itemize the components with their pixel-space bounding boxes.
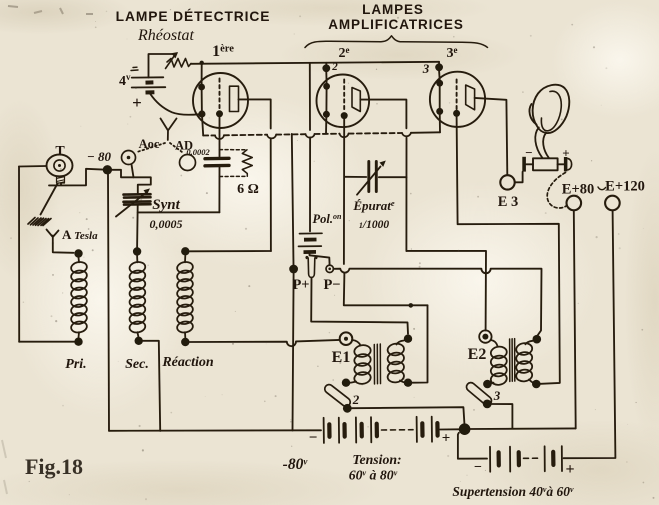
triode U2 envelope [317, 75, 370, 128]
svg-text:+: + [562, 146, 569, 161]
switch S2 plug lever [323, 383, 352, 408]
wire left vertical aerial circuit [18, 167, 20, 342]
battery B1 plates [132, 77, 166, 87]
svg-text:3: 3 [422, 61, 430, 76]
grid U2 dashed electrode [343, 80, 345, 112]
wire bottom to primary coil [19, 341, 74, 343]
svg-text:2: 2 [331, 61, 338, 73]
wire U1 plate lead [239, 99, 271, 128]
wire U1 plate down to reaction coil [270, 140, 272, 252]
transformer T1 secondary coil [387, 341, 406, 384]
svg-text:3: 3 [493, 388, 501, 403]
wire U2 plate to E2 top left [406, 251, 486, 331]
jack T telephone terminal [47, 155, 73, 177]
node reaction top [181, 247, 189, 255]
switch S3 plug lever [465, 381, 494, 407]
wire bus down to tube1 filament [201, 64, 203, 85]
hop heater bus over U1 plate wire [267, 135, 276, 139]
earth hatch block [28, 218, 51, 226]
wire T1 secondary bottom to grid bus [412, 305, 427, 382]
node top of tube1 filament [200, 61, 204, 65]
wire antenna to primary top [53, 243, 74, 253]
capacitor C3 epurateur plates [369, 162, 377, 192]
wire node2 to bus [325, 63, 327, 65]
node T2 secondary bottom [532, 380, 541, 389]
node T2 secondary top [533, 335, 542, 344]
pin U2 filament bottom [323, 111, 330, 118]
wire U2 filament to heater bus [325, 114, 327, 134]
node primary bottom [74, 338, 82, 346]
wire E plus 80 down [574, 210, 576, 428]
horn bell outer [533, 85, 570, 133]
wire B2 bottom to P minus [310, 253, 330, 265]
svg-text:AD: AD [175, 139, 193, 153]
wire reaction bottom to E1 with hop [190, 340, 340, 346]
svg-text:E+80: E+80 [562, 182, 594, 198]
node secondary top [133, 247, 141, 255]
svg-text:AMPLIFICATRICES: AMPLIFICATRICES [328, 17, 464, 32]
svg-text:P+: P+ [292, 277, 309, 293]
svg-text:1/1000: 1/1000 [359, 219, 389, 231]
svg-text:+: + [565, 461, 574, 478]
wire N2 right to E plus80 line [470, 427, 575, 430]
hop heater bus over U2 plate wire [402, 133, 411, 136]
wire Acc contact down [132, 165, 134, 178]
pin U1 grid [216, 110, 223, 117]
wire supertension to E plus120 [564, 211, 616, 458]
wire dashed supertension middle [524, 457, 542, 459]
svg-text:0,0005: 0,0005 [150, 217, 183, 231]
svg-text:Fig.18: Fig.18 [25, 454, 83, 479]
wire Pol supply down [309, 63, 311, 231]
wire P minus to E2 primary with hops [333, 269, 541, 336]
node secondary bottom [135, 337, 143, 345]
wire dotted S1 to Acc contact [137, 143, 165, 152]
rheostat R1 zigzag [167, 59, 191, 68]
terminal E plus 120 ring [605, 196, 620, 211]
node S3 contact [483, 400, 492, 409]
node T1 primary bottom [342, 379, 350, 387]
svg-text:LAMPE DÉTECTRICE: LAMPE DÉTECTRICE [116, 8, 271, 24]
wire dotted S1 to AD contact [170, 143, 184, 154]
node N2 battery junction [459, 423, 471, 435]
capacitor C3 arrow [357, 167, 381, 195]
svg-text:P−: P− [323, 277, 340, 293]
svg-text:−: − [309, 430, 318, 446]
transformer T1 core [374, 344, 380, 384]
wire U3 filament to heater bus [439, 111, 441, 132]
pin U2 filament top [323, 83, 330, 90]
wire battery plus to junction [440, 428, 459, 430]
svg-text:LAMPES: LAMPES [362, 2, 424, 17]
battery BT2 supertension cells [490, 446, 562, 472]
wire jack T left to down bus [19, 165, 47, 168]
wire plug stem to E1 [311, 278, 408, 334]
inductor L3 reaction coil [176, 256, 193, 338]
pin U1 filament bottom [198, 110, 205, 117]
svg-text:Réaction: Réaction [161, 355, 214, 370]
node N1 junction [103, 165, 112, 174]
svg-text:Supertension 40và 60v: Supertension 40và 60v [452, 484, 574, 499]
svg-text:Sec.: Sec. [125, 357, 149, 372]
inductor L1 primary coil [70, 258, 87, 338]
node stain on bus [409, 303, 414, 308]
triode U1 envelope [193, 73, 248, 128]
terminal E1 ring [340, 332, 353, 345]
wire epurateur left [345, 176, 366, 178]
node T1 secondary bottom [404, 379, 412, 387]
wire secondary bottom to B minus bus [143, 341, 160, 431]
plate U1 anode [230, 86, 239, 111]
terminal E2 bullseye [479, 330, 491, 342]
hop heater bus over grid U2 wire [340, 134, 349, 138]
wire U3 plate lead to E3 [475, 98, 508, 175]
transformer T1 primary coil [350, 340, 372, 385]
horn neck [535, 128, 542, 158]
contact Acc circle [122, 151, 136, 165]
wire cap C2 to grid return [218, 168, 220, 213]
pin U2 grid [341, 112, 348, 119]
battery BT1 tension cells [324, 417, 432, 443]
wire N1 down left frame [108, 174, 109, 431]
svg-text:Épurate: Épurate [352, 198, 395, 213]
wire grid U3 to E2 secondary [457, 117, 560, 384]
transformer T2 secondary coil [515, 341, 533, 383]
wire filament plus bus (top) [191, 62, 439, 64]
wire C1 down to secondary coil [136, 206, 139, 248]
horn bell mouth inner [541, 91, 561, 131]
wire U3 filament column [438, 71, 441, 80]
node S2 contact [343, 404, 352, 413]
grid U1 dashed electrode [219, 79, 221, 111]
wire U1 filament down to heater bus [202, 114, 203, 136]
svg-text:−: − [525, 145, 532, 160]
wire S3 to supertension junction [492, 404, 513, 428]
wire E3 to speaker motor [515, 172, 523, 183]
svg-text:Aoc: Aoc [139, 137, 160, 151]
wire U1 filament internal [201, 87, 203, 114]
contact AD circle [180, 155, 196, 171]
transformer T2 core [510, 339, 515, 382]
speaker motor knob [568, 159, 572, 170]
speaker motor box [533, 158, 558, 170]
node T2 primary bottom [483, 380, 492, 389]
squiggle between E80 and E120 [598, 187, 606, 190]
wire U2 filament column [325, 72, 327, 83]
pin U3 filament bottom [436, 108, 443, 115]
switch S1 blade [161, 119, 177, 141]
wire jack diagonal to earth hatch [41, 184, 58, 215]
jack T stem hatched [57, 176, 65, 183]
node T1 secondary top [404, 335, 412, 343]
wire dashed link R2 bottom [220, 175, 248, 177]
wire U2 filament internal [325, 86, 327, 114]
terminal E3 ring [500, 175, 514, 189]
svg-text:Rhéostat: Rhéostat [137, 27, 195, 44]
wire jack stem to junction [49, 169, 103, 186]
terminal P minus ring [326, 265, 333, 272]
wire P plus bias line [292, 134, 294, 265]
battery B1 minus tick [131, 67, 138, 70]
svg-text:60v à 80v: 60v à 80v [349, 468, 398, 483]
wire N2 down to supertension [458, 433, 487, 459]
antenna A Tesla symbol [47, 230, 59, 244]
triode U3 envelope [430, 72, 485, 127]
speaker motor left cap [526, 163, 533, 165]
svg-text:Pri.: Pri. [65, 357, 86, 372]
svg-text:+: + [442, 431, 451, 447]
svg-text:− 80: − 80 [87, 149, 112, 164]
wire grid U1 down to coupling cap [219, 117, 221, 156]
wire U2 plate lead right and down [360, 100, 406, 251]
svg-text:A Tesla: A Tesla [62, 227, 98, 242]
pin U1 filament top [198, 84, 205, 91]
wire dashed cord motor to E80 [547, 173, 567, 208]
svg-text:E+120: E+120 [605, 179, 645, 195]
capacitor C1 arrow [116, 193, 146, 216]
wire grid return horizontal [138, 211, 220, 213]
plug olive between P terminals [306, 257, 317, 278]
inductor L2 secondary coil [129, 256, 146, 337]
horn throat curl [529, 104, 536, 125]
node reaction bottom [181, 338, 189, 346]
svg-text:−: − [474, 460, 482, 475]
svg-text:6 Ω: 6 Ω [237, 182, 259, 197]
capacitor C1 Synt plates [124, 194, 151, 197]
wire dashed battery middle [382, 429, 414, 431]
plate U2 anode [352, 88, 360, 112]
svg-text:Tension:: Tension: [352, 452, 401, 467]
resistor R2 grid leak zigzag [242, 150, 252, 177]
plate U3 anode [466, 85, 475, 110]
terminal P plus dot [289, 265, 298, 274]
svg-text:E2: E2 [468, 346, 487, 363]
wire U3 filament internal [439, 83, 441, 111]
rheostat R1 wiper arrow [166, 57, 174, 69]
wire battery top to rheostat [149, 54, 174, 77]
svg-text:Synt: Synt [152, 197, 180, 213]
node 3 tube3 supply [435, 63, 443, 71]
node primary top [74, 249, 82, 257]
transformer T2 primary coil [490, 340, 508, 386]
wire central grid bus U2 [344, 119, 428, 305]
wire heater dashed bus [203, 134, 215, 136]
wire dashed link grid to R2 top [220, 149, 248, 151]
wire reaction top to U1 plate [190, 250, 271, 252]
brace over amplifier tubes [305, 36, 488, 48]
svg-text:+: + [132, 93, 142, 112]
svg-text:E 3: E 3 [498, 194, 519, 210]
wire bus corner down to node3 [438, 62, 440, 64]
wire battery plus curve to tube1 filament [150, 94, 199, 115]
wire S2 to battery junction [352, 407, 465, 423]
node 2 tube2 supply [322, 64, 330, 72]
svg-text:T: T [55, 144, 65, 159]
battery B2 polarisation plates [299, 233, 323, 246]
svg-text:2: 2 [352, 392, 360, 407]
wire B minus bus bottom [109, 429, 321, 432]
hop heater bus over grid U1 [215, 135, 224, 139]
terminal E plus 80 ring [567, 196, 582, 211]
wire N1 to tuning cap staircase [112, 170, 151, 193]
hop heater bus over Pol wire [306, 134, 315, 138]
wire epurateur right [379, 176, 407, 178]
pin U3 grid [453, 110, 460, 117]
grid U3 dashed electrode [456, 80, 458, 110]
capacitor C2 0,0002 plates [205, 158, 229, 166]
speaker motor right cap [558, 163, 564, 165]
pin U3 filament top [436, 80, 443, 87]
